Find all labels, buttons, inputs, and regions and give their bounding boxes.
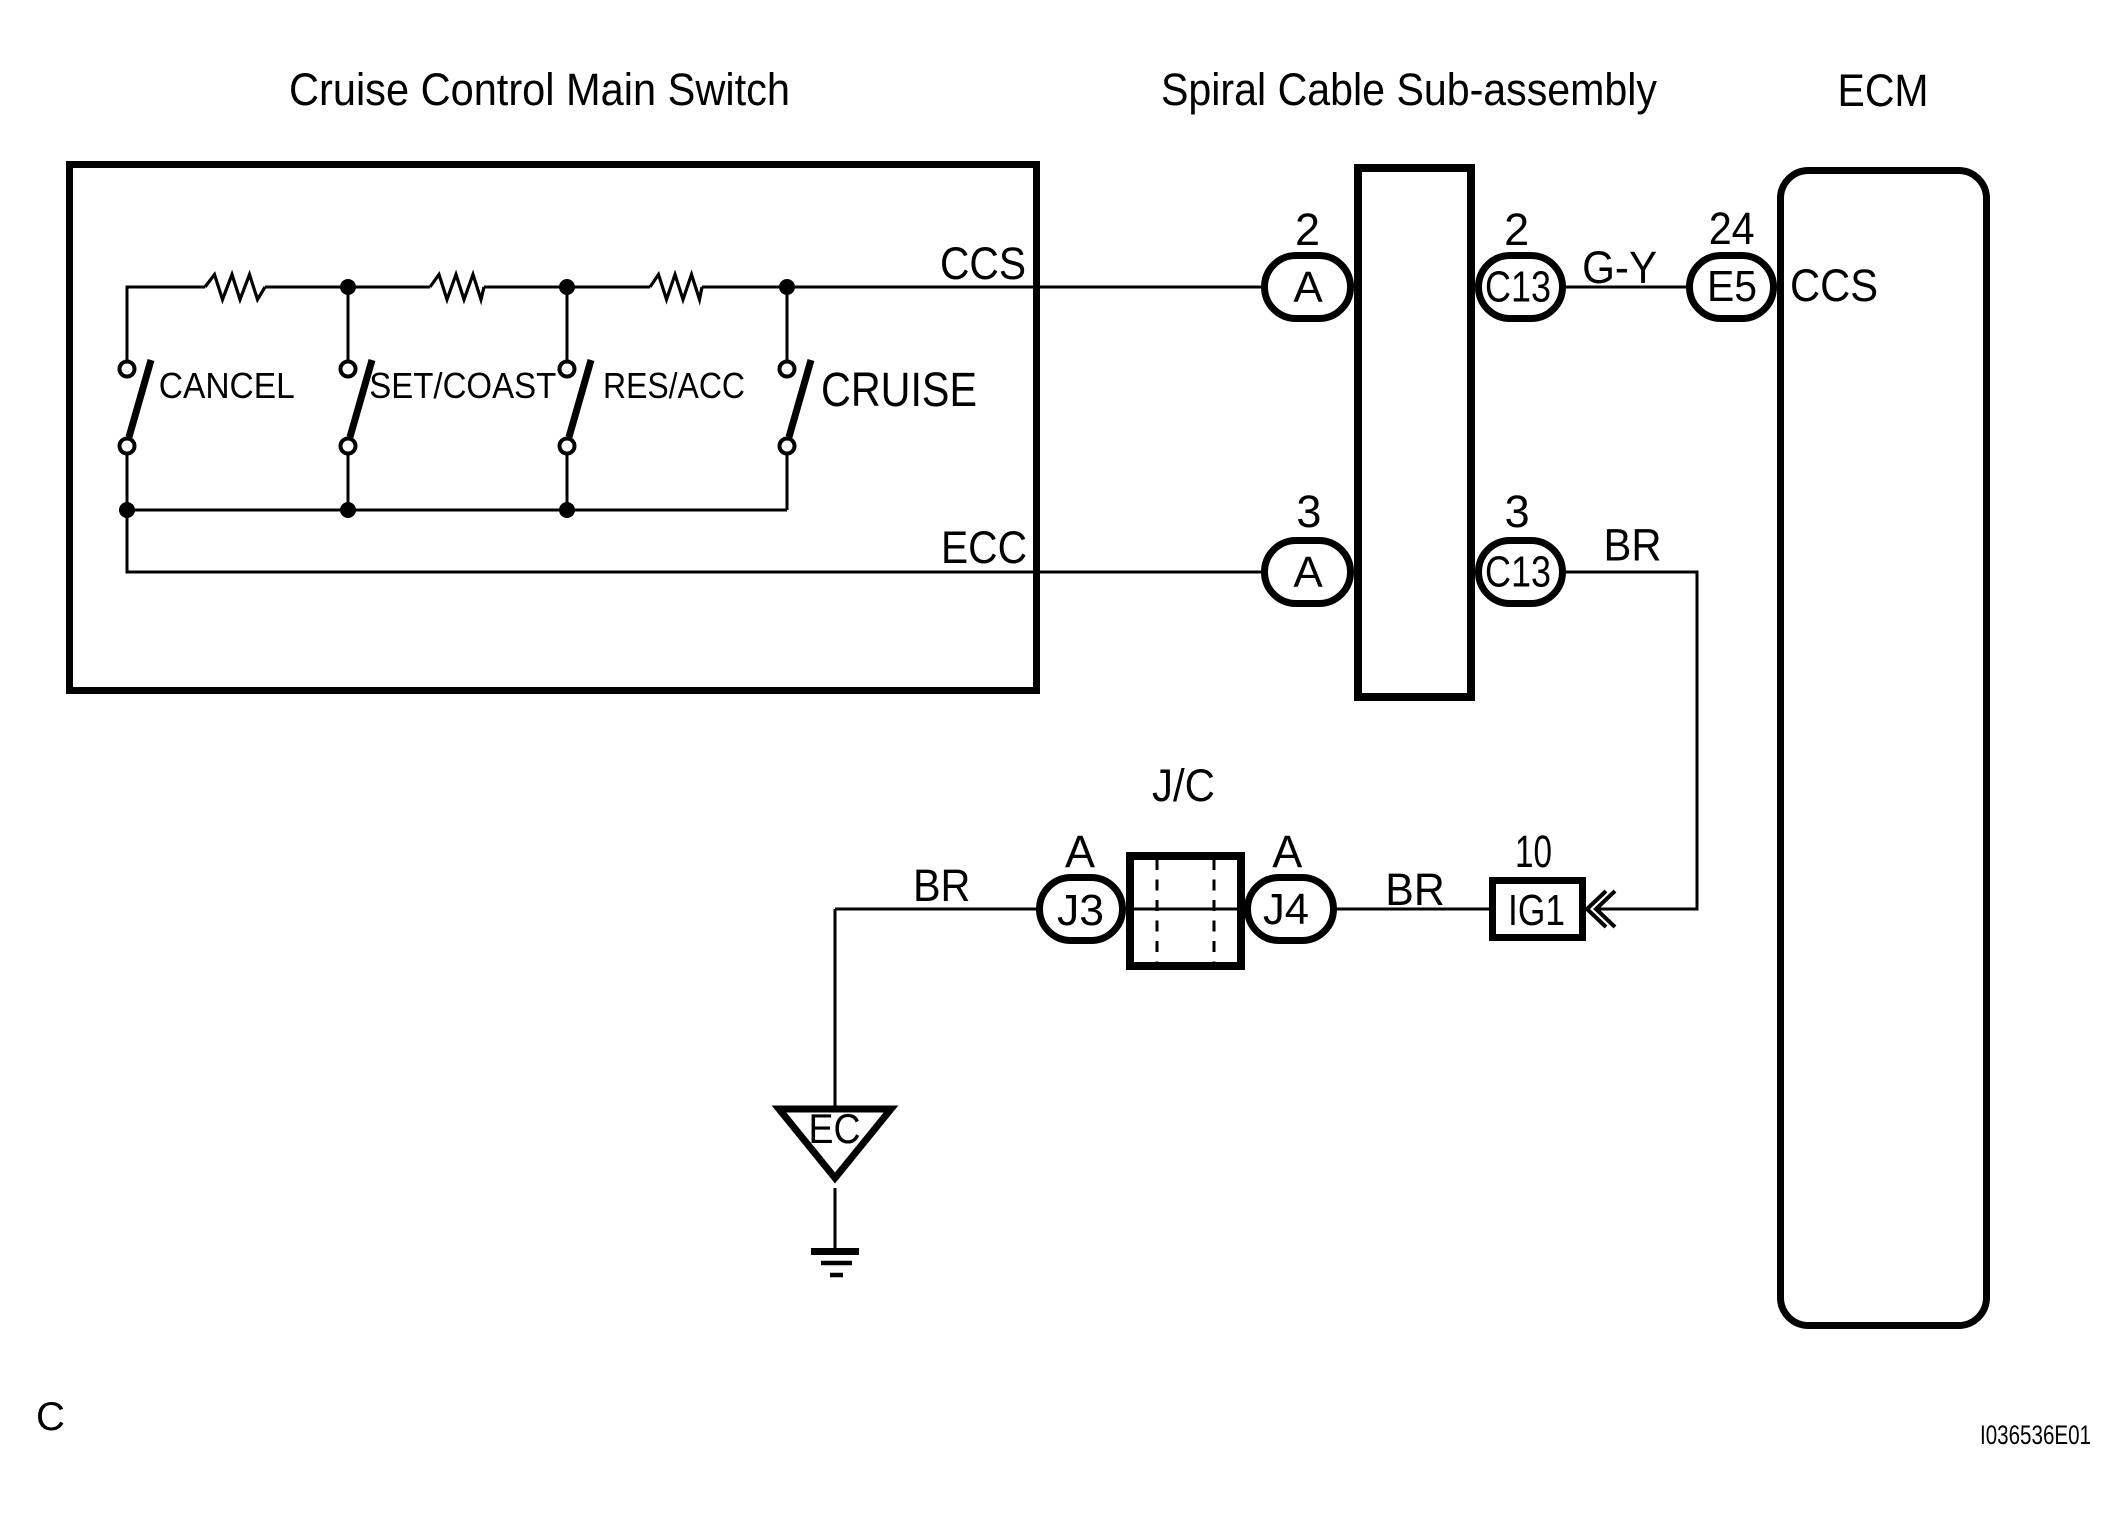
svg-text:BR: BR (1385, 864, 1445, 915)
wire down to EC (834, 909, 837, 1106)
svg-text:I036536E01: I036536E01 (1980, 1420, 2091, 1450)
svg-text:ECC: ECC (941, 522, 1027, 573)
svg-text:Spiral Cable Sub-assembly: Spiral Cable Sub-assembly (1161, 64, 1657, 115)
junction dot (559, 502, 575, 518)
svg-text:RES/ACC: RES/ACC (603, 365, 745, 406)
junction dot (340, 502, 356, 518)
svg-text:10: 10 (1515, 826, 1552, 877)
svg-text:C: C (36, 1395, 65, 1439)
ECM box (1781, 171, 1987, 1326)
svg-text:A: A (1272, 826, 1302, 877)
svg-text:ECM: ECM (1838, 65, 1929, 116)
switch SET/COAST (341, 360, 373, 510)
svg-text:BR: BR (1604, 520, 1662, 571)
junction connector J/C box (1126, 856, 1246, 966)
wire to ground (834, 1188, 837, 1250)
svg-text:Cruise Control Main Switch: Cruise Control Main Switch (289, 64, 790, 115)
svg-text:C13: C13 (1485, 263, 1551, 312)
svg-text:24: 24 (1709, 203, 1755, 254)
junction dot (779, 279, 795, 295)
svg-text:E5: E5 (1707, 262, 1757, 311)
wire BR to J3 (835, 908, 1039, 911)
svg-text:3: 3 (1296, 486, 1321, 537)
wire (347, 287, 350, 360)
svg-text:CCS: CCS (1790, 260, 1878, 311)
connector J4 (1248, 878, 1334, 941)
connector IG1 (1493, 881, 1583, 938)
svg-text:EC: EC (809, 1105, 861, 1152)
component box: Cruise Control Main Switch (70, 165, 1037, 691)
svg-text:J/C: J/C (1152, 760, 1215, 811)
connector A pin 2 (1265, 256, 1351, 319)
wire BR from C13 (1562, 572, 1697, 909)
switch CRUISE (780, 360, 812, 510)
svg-text:J4: J4 (1263, 885, 1309, 934)
svg-text:J3: J3 (1057, 886, 1104, 935)
svg-text:CRUISE: CRUISE (821, 364, 977, 417)
wire G-Y (1562, 286, 1686, 289)
junction dot (559, 279, 575, 295)
svg-text:A: A (1065, 826, 1095, 877)
ground EC triangle (779, 1105, 891, 1178)
svg-text:A: A (1293, 263, 1323, 312)
svg-text:2: 2 (1295, 204, 1320, 255)
ground symbol (811, 1252, 859, 1276)
resistor R2 (430, 275, 484, 300)
wire bottom bus (127, 509, 787, 512)
chevron break symbol (1587, 891, 1615, 927)
spiral cable sub-assembly box (1358, 168, 1471, 697)
svg-text:SET/COAST: SET/COAST (369, 365, 556, 406)
svg-text:CANCEL: CANCEL (159, 365, 295, 406)
svg-text:A: A (1293, 548, 1323, 597)
wire (484, 286, 650, 289)
wire (566, 287, 569, 360)
connector E5 pin 24 (1690, 256, 1774, 319)
switch RES/ACC (560, 360, 592, 510)
junction dot (340, 279, 356, 295)
connector J3 (1040, 878, 1123, 941)
wire (786, 287, 789, 360)
svg-text:IG1: IG1 (1508, 886, 1565, 935)
wire ECC row (127, 510, 1261, 572)
resistor R3 (650, 275, 702, 300)
svg-text:3: 3 (1505, 486, 1530, 537)
svg-text:G-Y: G-Y (1582, 242, 1657, 293)
wire (265, 286, 430, 289)
svg-text:BR: BR (913, 860, 971, 911)
connector C13 pin 2 (1479, 256, 1563, 319)
connector C13 pin 3 (1479, 541, 1563, 604)
svg-text:2: 2 (1504, 204, 1529, 255)
wire J4 to IG1 (1334, 908, 1490, 911)
junction dot (119, 502, 135, 518)
wire CCS row (127, 287, 205, 360)
wire (702, 286, 1261, 289)
switch CANCEL (120, 360, 152, 510)
resistor R1 (205, 275, 265, 300)
svg-text:CCS: CCS (940, 238, 1026, 289)
svg-text:C13: C13 (1485, 548, 1551, 597)
connector A pin 3 (1265, 541, 1351, 604)
